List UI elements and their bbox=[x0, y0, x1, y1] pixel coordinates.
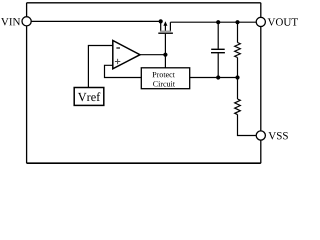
node feedback capacitor junction bbox=[216, 75, 220, 79]
node feedback divider junction bbox=[235, 75, 239, 79]
wire capacitor top lead bbox=[217, 22, 219, 49]
terminal VIN bbox=[22, 17, 31, 26]
wire R2 bottom lead to VSS bbox=[238, 115, 261, 136]
wire non-inverting input from feedback bbox=[105, 65, 142, 77]
wire inverting input from Vref bbox=[88, 46, 112, 88]
Vref block bbox=[74, 88, 104, 106]
node gate junction dot bbox=[163, 53, 167, 57]
label VIN bbox=[1, 18, 20, 25]
label VSS bbox=[268, 132, 287, 140]
wire R1 top lead bbox=[237, 22, 239, 42]
drain stub bbox=[169, 22, 171, 31]
gate lead bbox=[164, 34, 166, 68]
wire op-amp output to gate node bbox=[140, 54, 165, 56]
node R1 top junction bbox=[235, 20, 239, 24]
IC outline box bbox=[27, 3, 261, 163]
op-amp plus sign bbox=[115, 59, 120, 64]
transistor M1 pass MOSFET bbox=[158, 21, 173, 68]
op-amp minus sign bbox=[116, 47, 120, 49]
node capacitor top junction bbox=[216, 20, 220, 24]
wire feedback line bbox=[190, 77, 238, 79]
capacitor C1 bbox=[211, 49, 225, 52]
terminal VSS bbox=[256, 131, 265, 140]
resistor R1 bbox=[235, 43, 241, 58]
wire VIN rail bbox=[27, 20, 163, 22]
bulk arrow head bbox=[163, 21, 167, 26]
bulk arrow shaft bbox=[164, 25, 166, 31]
wire capacitor bottom lead bbox=[217, 53, 219, 77]
label VOUT bbox=[268, 18, 298, 26]
gate plate bbox=[158, 32, 173, 34]
source stub bbox=[160, 21, 162, 31]
wire VOUT rail bbox=[170, 21, 260, 23]
terminal VOUT bbox=[256, 17, 265, 26]
wire R1 bottom lead bbox=[237, 58, 239, 78]
Protect Circuit block bbox=[141, 68, 189, 89]
node source junction dot bbox=[159, 19, 163, 23]
channel line bbox=[160, 30, 171, 32]
op-amp U1 error amplifier bbox=[113, 41, 140, 69]
resistor R2 bbox=[235, 99, 241, 115]
wire R2 top lead bbox=[237, 78, 239, 100]
